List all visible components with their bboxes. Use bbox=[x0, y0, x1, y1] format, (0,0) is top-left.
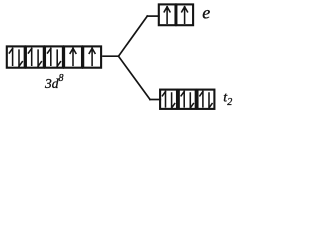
paired electron harpoons t2 box1 bbox=[162, 91, 174, 108]
wire upper lead to e boxes bbox=[147, 15, 159, 17]
orbital box row 3d (5 boxes) bbox=[7, 46, 101, 67]
wire from 3d row to branch point bbox=[103, 55, 119, 57]
orbital box row t2 (3 boxes) bbox=[160, 90, 214, 109]
wire lower diagonal branch bbox=[119, 56, 151, 99]
svg-text:e: e bbox=[202, 2, 210, 22]
orbital box row e (2 boxes) bbox=[159, 4, 193, 25]
single electron up arrow box4 bbox=[70, 48, 76, 65]
single electron up arrow box5 bbox=[89, 48, 95, 65]
single electron up arrow e box2 bbox=[182, 7, 188, 23]
paired electron harpoons t2 box2 bbox=[181, 91, 193, 108]
single electron up arrow e box1 bbox=[164, 7, 170, 23]
paired electron harpoons box3 bbox=[48, 48, 61, 66]
paired electron harpoons box2 bbox=[28, 48, 41, 66]
wire lower lead to t2 boxes bbox=[150, 99, 160, 101]
paired electron harpoons t2 box3 bbox=[200, 91, 212, 108]
paired electron harpoons box1 bbox=[9, 48, 22, 66]
wire upper diagonal branch bbox=[119, 16, 148, 56]
